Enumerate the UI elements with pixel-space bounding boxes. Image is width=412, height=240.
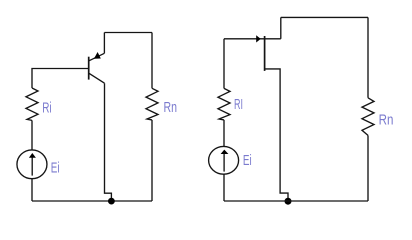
transistor Q1 bar bbox=[88, 57, 90, 80]
top rail (right circuit) bbox=[281, 16, 368, 18]
Q1 emitter diagonal bbox=[89, 53, 104, 60]
resistor Ri (right circuit) bbox=[218, 88, 230, 120]
Rn branch (right circuit) bbox=[367, 17, 369, 97]
junction dot (right circuit) bbox=[285, 198, 292, 205]
wire base+left branch top (left circuit) bbox=[32, 69, 89, 89]
wire Ei to bottom rail bbox=[31, 179, 33, 201]
bottom rail (right circuit) bbox=[224, 200, 368, 202]
Q1 emitter vertical bbox=[103, 33, 105, 54]
svg-text:Ei: Ei bbox=[51, 159, 60, 176]
source Ei (right circuit) bbox=[209, 146, 239, 174]
Q1 emitter arrow bbox=[94, 52, 101, 59]
wire Ri to Ei bbox=[31, 120, 33, 149]
Rn branch top wire (left circuit) bbox=[151, 33, 153, 89]
wire Ri to Ei (right circuit) bbox=[223, 120, 225, 146]
arrow on wire (right circuit) bbox=[256, 35, 261, 42]
arrow inside Ei bbox=[31, 157, 33, 176]
lower lead from bar (right circuit) bbox=[265, 69, 288, 201]
bottom rail (left circuit) bbox=[32, 200, 152, 202]
svg-text:RI: RI bbox=[234, 96, 243, 113]
arrow inside Ei (right) bbox=[223, 153, 225, 172]
svg-text:Rn: Rn bbox=[164, 99, 178, 116]
top rail (left circuit) bbox=[104, 32, 152, 34]
vertical to top rail (right circuit) bbox=[280, 17, 282, 38]
source Ei (left circuit) bbox=[17, 150, 47, 179]
svg-text:Ri: Ri bbox=[42, 99, 51, 116]
resistor Rn (left circuit) bbox=[146, 88, 158, 120]
Rn bottom wire (right circuit) bbox=[367, 135, 369, 201]
resistor Rn (right circuit) bbox=[362, 98, 374, 136]
svg-text:Ei: Ei bbox=[243, 152, 252, 169]
Rn branch bottom wire bbox=[151, 120, 153, 201]
left branch top (right circuit) bbox=[223, 39, 225, 89]
Q1 collector diagonal bbox=[89, 73, 104, 83]
wire Ei to bottom rail (right) bbox=[223, 175, 225, 202]
Q1 collector vertical bbox=[105, 83, 112, 201]
bar (right circuit symbol) bbox=[264, 36, 266, 71]
svg-text:Rn: Rn bbox=[379, 111, 394, 128]
junction dot (left circuit) bbox=[108, 198, 115, 205]
resistor Ri (left circuit) bbox=[26, 88, 38, 120]
wire top-left (right circuit) bbox=[224, 38, 281, 40]
